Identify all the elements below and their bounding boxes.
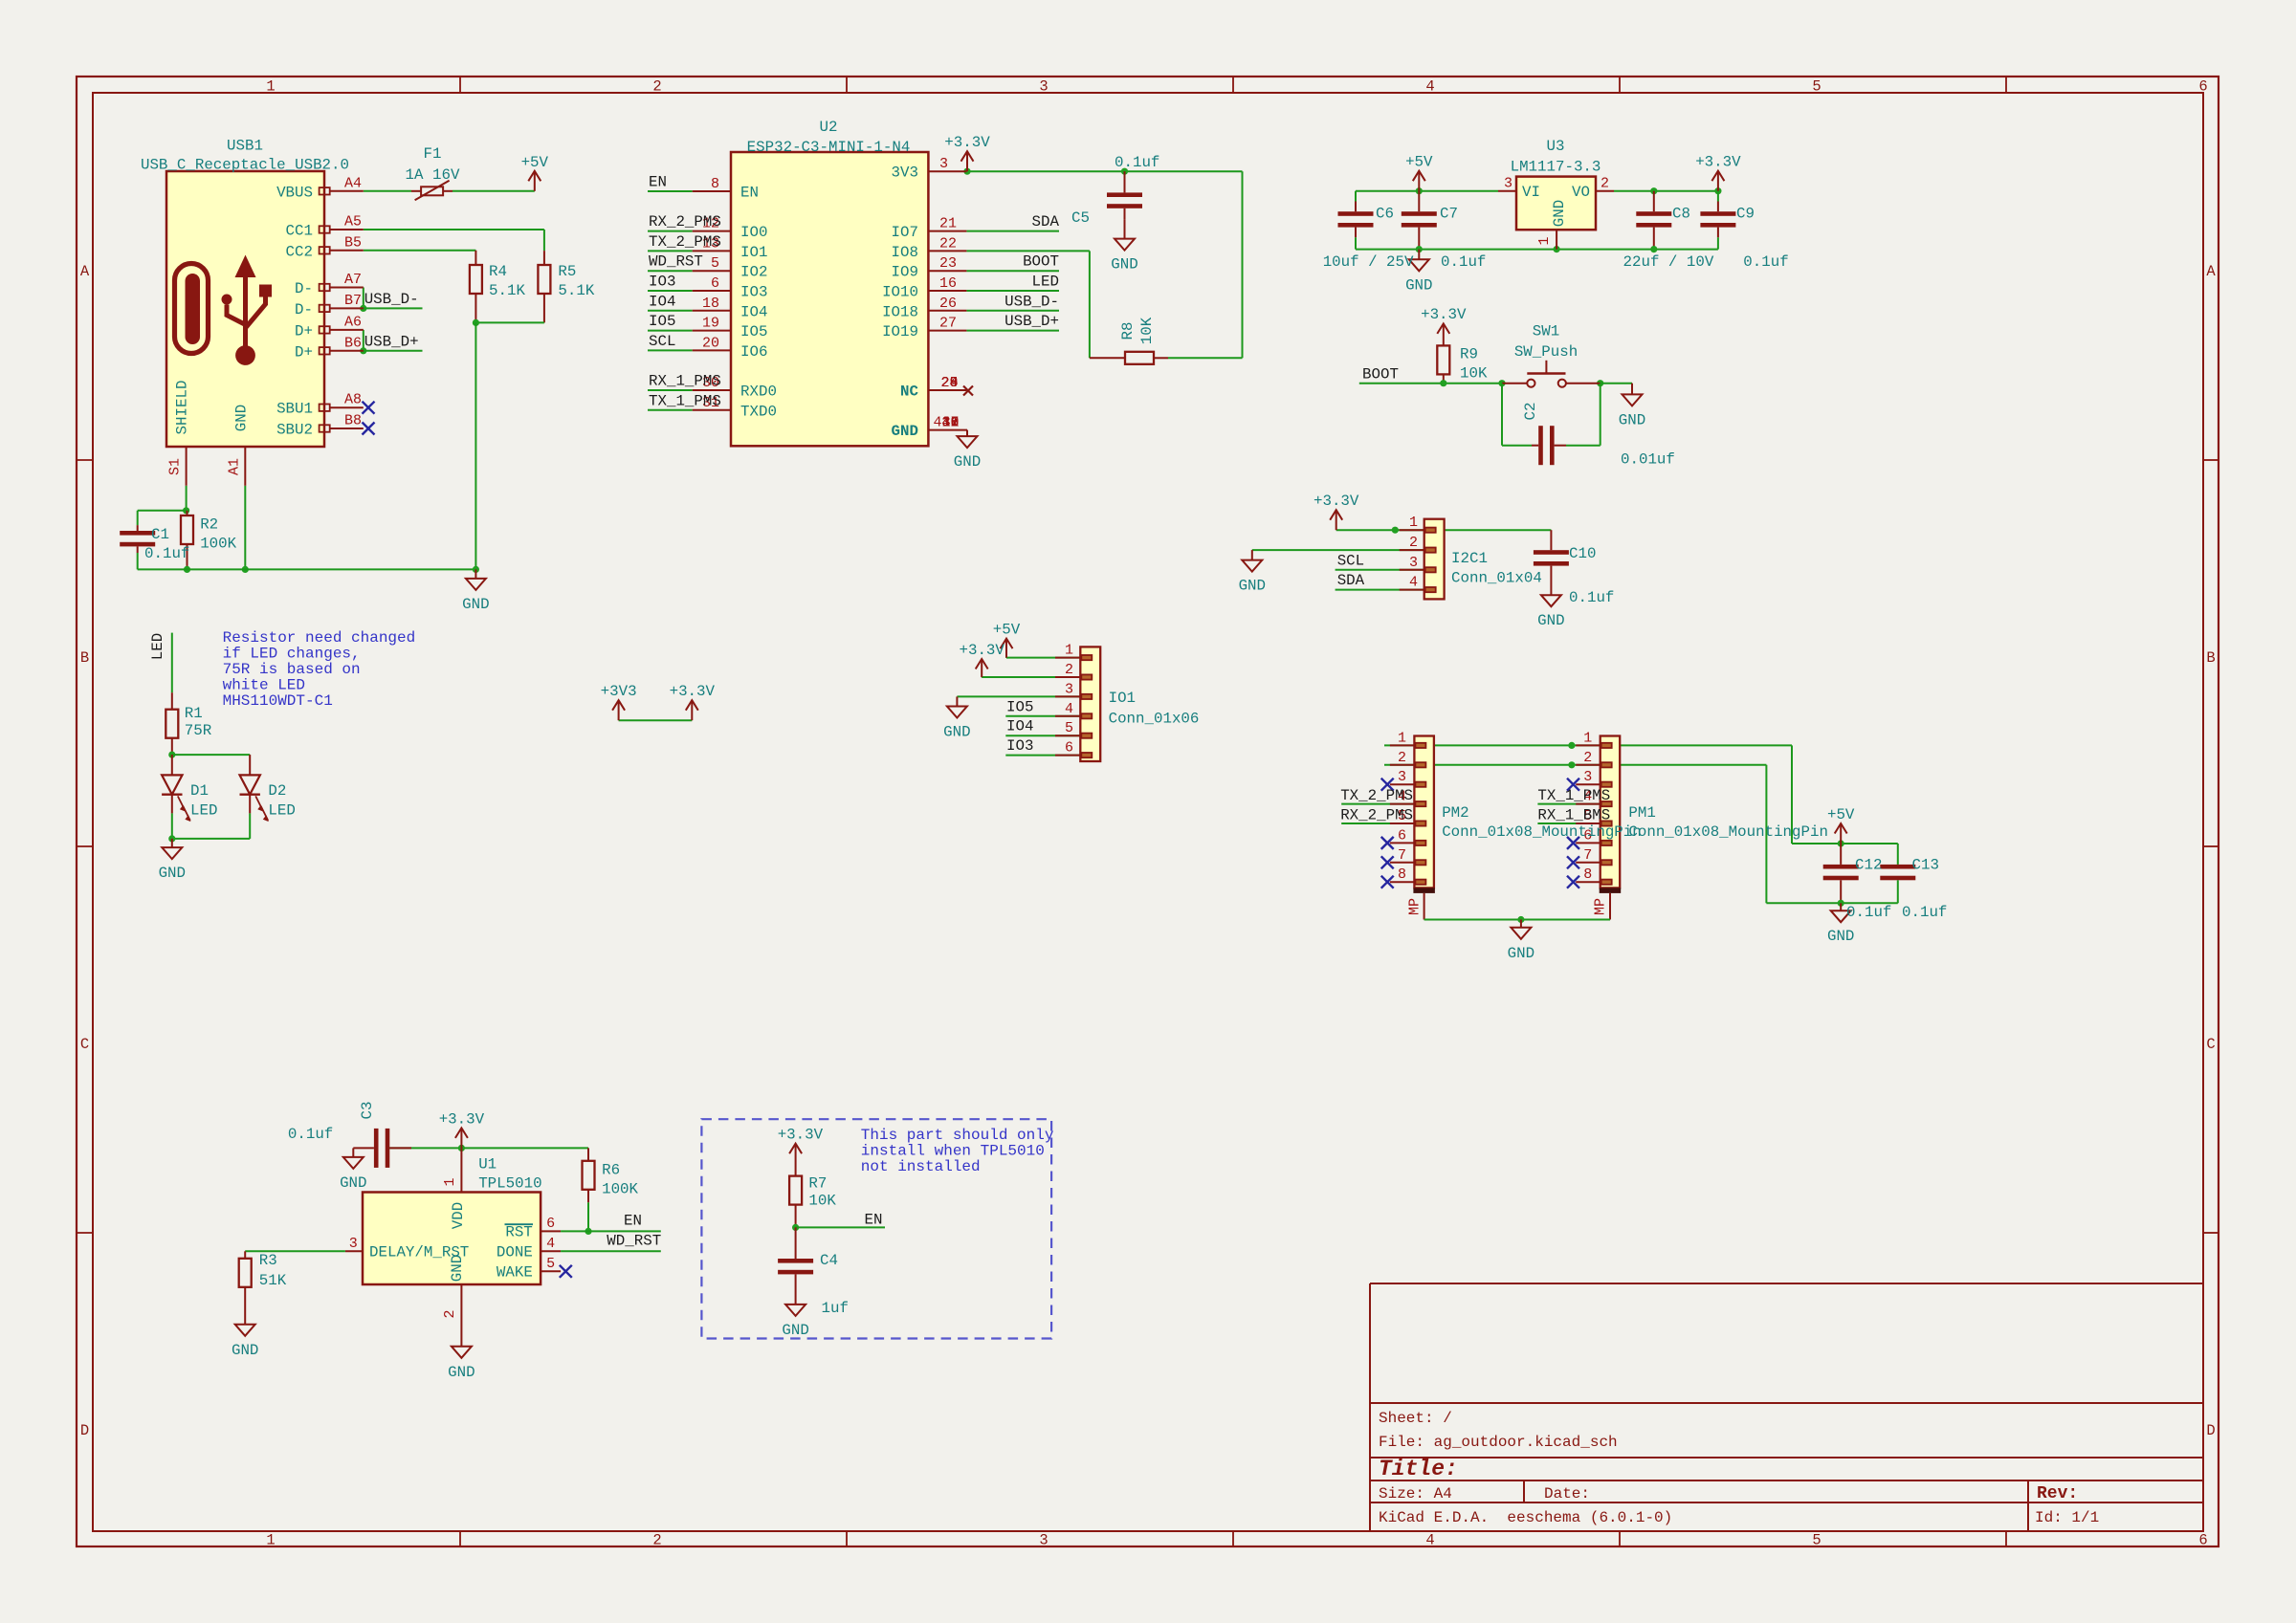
svg-text:IO5: IO5 xyxy=(740,323,767,340)
svg-text:Conn_01x08_MountingPin: Conn_01x08_MountingPin xyxy=(1628,823,1828,841)
svg-text:white LED: white LED xyxy=(223,677,305,694)
svg-text:3: 3 xyxy=(939,156,948,172)
svg-text:VO: VO xyxy=(1572,184,1590,201)
svg-text:BOOT: BOOT xyxy=(1023,253,1059,271)
svg-text:B5: B5 xyxy=(344,234,362,251)
svg-text:IO19: IO19 xyxy=(882,323,918,340)
svg-text:3: 3 xyxy=(1504,175,1512,191)
svg-text:+3.3V: +3.3V xyxy=(439,1110,485,1128)
svg-text:F1: F1 xyxy=(424,145,442,163)
svg-text:22: 22 xyxy=(939,235,957,252)
svg-text:IO2: IO2 xyxy=(740,264,767,281)
svg-text:A: A xyxy=(2206,263,2216,280)
svg-text:Rev:: Rev: xyxy=(2037,1484,2078,1503)
svg-text:C10: C10 xyxy=(1569,545,1596,562)
svg-text:IO4: IO4 xyxy=(740,303,767,320)
svg-text:GND: GND xyxy=(462,596,489,613)
svg-text:GND: GND xyxy=(782,1322,808,1339)
svg-text:2: 2 xyxy=(1398,750,1406,766)
svg-text:1: 1 xyxy=(266,78,275,96)
svg-text:R3: R3 xyxy=(259,1252,277,1269)
svg-text:RST: RST xyxy=(505,1223,532,1240)
svg-text:RX_1_BMS: RX_1_BMS xyxy=(1537,807,1610,824)
svg-text:B: B xyxy=(2206,649,2215,667)
svg-text:D+: D+ xyxy=(295,343,313,361)
svg-text:+3V3: +3V3 xyxy=(601,683,637,700)
svg-text:3: 3 xyxy=(1398,769,1406,785)
svg-text:+3.3V: +3.3V xyxy=(1314,493,1359,510)
svg-text:GND: GND xyxy=(232,405,250,431)
svg-text:DELAY/M_RST: DELAY/M_RST xyxy=(369,1243,469,1261)
svg-text:4: 4 xyxy=(1425,78,1434,96)
svg-text:Resistor need changed: Resistor need changed xyxy=(223,629,416,647)
svg-text:5: 5 xyxy=(1812,1532,1821,1549)
svg-text:2: 2 xyxy=(442,1309,458,1318)
svg-text:D+: D+ xyxy=(295,322,313,340)
svg-text:if LED changes,: if LED changes, xyxy=(223,645,361,662)
svg-text:IO7: IO7 xyxy=(892,224,918,241)
svg-text:LED: LED xyxy=(190,802,217,820)
svg-text:C8: C8 xyxy=(1672,206,1690,223)
svg-text:6: 6 xyxy=(1398,827,1406,844)
svg-text:IO3: IO3 xyxy=(649,274,675,291)
svg-text:Size: A4: Size: A4 xyxy=(1379,1485,1452,1502)
svg-text:install when TPL5010: install when TPL5010 xyxy=(861,1143,1045,1160)
svg-text:10K: 10K xyxy=(1460,365,1488,383)
svg-text:3V3: 3V3 xyxy=(892,164,918,182)
svg-text:File: ag_outdoor.kicad_sch: File: ag_outdoor.kicad_sch xyxy=(1379,1434,1618,1451)
svg-text:IO5: IO5 xyxy=(1006,698,1033,715)
svg-text:5: 5 xyxy=(546,1256,555,1272)
svg-text:Conn_01x04: Conn_01x04 xyxy=(1451,570,1542,587)
svg-text:IO3: IO3 xyxy=(740,284,767,301)
svg-text:IO0: IO0 xyxy=(740,224,767,241)
svg-text:5: 5 xyxy=(711,255,719,272)
svg-text:R4: R4 xyxy=(489,263,507,280)
svg-text:5.1K: 5.1K xyxy=(489,282,525,299)
svg-text:U3: U3 xyxy=(1547,138,1565,155)
svg-text:GND: GND xyxy=(1537,612,1564,629)
svg-text:U1: U1 xyxy=(478,1156,497,1173)
svg-text:GND: GND xyxy=(1111,256,1137,274)
svg-text:MP: MP xyxy=(1406,898,1423,915)
svg-text:Title:: Title: xyxy=(1379,1457,1458,1481)
svg-text:C6: C6 xyxy=(1376,206,1394,223)
svg-text:2: 2 xyxy=(1065,662,1073,678)
svg-text:+5V: +5V xyxy=(521,154,549,171)
svg-text:Conn_01x08_MountingPin: Conn_01x08_MountingPin xyxy=(1442,823,1642,841)
svg-text:not installed: not installed xyxy=(861,1158,981,1175)
svg-text:SDA: SDA xyxy=(1032,213,1060,230)
svg-text:4: 4 xyxy=(934,415,942,431)
svg-text:75R: 75R xyxy=(185,722,212,739)
svg-text:IO1: IO1 xyxy=(740,244,767,261)
svg-text:+5V: +5V xyxy=(993,622,1021,639)
svg-text:3: 3 xyxy=(349,1236,358,1252)
svg-text:3: 3 xyxy=(1039,1532,1048,1549)
svg-text:EN: EN xyxy=(649,174,667,191)
svg-text:TX_1_PMS: TX_1_PMS xyxy=(649,392,721,409)
svg-text:0.1uf: 0.1uf xyxy=(1115,154,1159,171)
svg-text:+3.3V: +3.3V xyxy=(670,683,716,700)
svg-text:Id: 1/1: Id: 1/1 xyxy=(2035,1509,2099,1526)
svg-text:C9: C9 xyxy=(1736,206,1755,223)
svg-text:EN: EN xyxy=(865,1212,883,1229)
svg-text:C12: C12 xyxy=(1855,857,1882,874)
svg-text:2: 2 xyxy=(652,1532,661,1549)
svg-text:6: 6 xyxy=(546,1216,555,1232)
svg-text:4: 4 xyxy=(1065,701,1073,717)
svg-text:4: 4 xyxy=(546,1236,555,1252)
svg-text:21: 21 xyxy=(939,216,957,232)
svg-text:VI: VI xyxy=(1522,184,1540,201)
svg-text:RX_2_PMS: RX_2_PMS xyxy=(649,213,721,230)
svg-text:C1: C1 xyxy=(151,526,169,543)
svg-text:MP: MP xyxy=(1593,898,1609,915)
svg-text:2: 2 xyxy=(1583,750,1592,766)
svg-text:3: 3 xyxy=(1039,78,1048,96)
svg-text:LM1117-3.3: LM1117-3.3 xyxy=(1511,159,1601,176)
svg-text:0.1uf: 0.1uf xyxy=(1902,904,1947,921)
svg-text:SBU2: SBU2 xyxy=(276,422,313,439)
svg-text:1: 1 xyxy=(1409,515,1418,531)
svg-text:U2: U2 xyxy=(820,119,838,136)
svg-text:C5: C5 xyxy=(1071,209,1090,227)
svg-text:D-: D- xyxy=(295,280,313,297)
svg-text:8: 8 xyxy=(1398,866,1406,883)
svg-text:IO6: IO6 xyxy=(740,343,767,361)
svg-text:WD_RST: WD_RST xyxy=(607,1232,661,1249)
svg-text:GND: GND xyxy=(340,1174,366,1192)
svg-text:5.1K: 5.1K xyxy=(558,282,594,299)
svg-text:Conn_01x06: Conn_01x06 xyxy=(1109,711,1200,728)
svg-text:1uf: 1uf xyxy=(822,1300,849,1317)
svg-text:8: 8 xyxy=(711,176,719,192)
svg-text:RX_2_PMS: RX_2_PMS xyxy=(1340,807,1413,824)
svg-text:+3.3V: +3.3V xyxy=(1421,306,1467,323)
svg-text:10K: 10K xyxy=(1138,317,1156,344)
svg-text:USB_D-: USB_D- xyxy=(364,291,419,308)
svg-text:A6: A6 xyxy=(344,314,362,330)
svg-text:IO1: IO1 xyxy=(1109,690,1136,707)
svg-text:I2C1: I2C1 xyxy=(1451,550,1488,567)
svg-text:KiCad E.D.A. eeschema (6.0.1-: KiCad E.D.A. eeschema (6.0.1-0) xyxy=(1379,1509,1672,1526)
svg-text:D: D xyxy=(80,1422,89,1439)
svg-text:1A 16V: 1A 16V xyxy=(406,166,460,184)
svg-text:B7: B7 xyxy=(344,293,362,309)
svg-text:VDD: VDD xyxy=(450,1202,467,1229)
svg-text:1: 1 xyxy=(1398,730,1406,746)
svg-text:USB_D+: USB_D+ xyxy=(364,333,419,350)
svg-text:A4: A4 xyxy=(344,175,362,191)
svg-text:0.1uf: 0.1uf xyxy=(1569,589,1614,606)
svg-text:USB_C_Receptacle_USB2.0: USB_C_Receptacle_USB2.0 xyxy=(141,157,349,174)
svg-text:CC1: CC1 xyxy=(286,223,313,240)
svg-text:0.1uf: 0.1uf xyxy=(1846,904,1891,921)
svg-text:6: 6 xyxy=(711,275,719,292)
svg-text:7: 7 xyxy=(1398,847,1406,864)
svg-text:IO3: IO3 xyxy=(1006,737,1033,755)
svg-text:A1: A1 xyxy=(227,458,243,475)
svg-text:ESP32-C3-MINI-1-N4: ESP32-C3-MINI-1-N4 xyxy=(747,139,911,156)
svg-text:2: 2 xyxy=(1601,175,1609,191)
svg-text:A8: A8 xyxy=(344,392,362,408)
svg-text:+3.3V: +3.3V xyxy=(1695,154,1741,171)
svg-text:0.01uf: 0.01uf xyxy=(1621,451,1675,469)
svg-text:USB1: USB1 xyxy=(227,138,263,155)
svg-text:0.1uf: 0.1uf xyxy=(144,545,189,562)
svg-text:IO10: IO10 xyxy=(882,284,918,301)
svg-text:B: B xyxy=(80,649,89,667)
svg-text:4: 4 xyxy=(1409,575,1418,591)
svg-text:GND: GND xyxy=(1508,945,1534,962)
svg-text:22uf / 10V: 22uf / 10V xyxy=(1623,253,1714,271)
svg-text:IO5: IO5 xyxy=(649,313,675,330)
svg-text:1: 1 xyxy=(1536,236,1553,245)
svg-text:16: 16 xyxy=(939,275,957,292)
svg-text:51K: 51K xyxy=(259,1272,287,1289)
svg-text:23: 23 xyxy=(939,255,957,272)
svg-text:3: 3 xyxy=(1065,681,1073,697)
svg-text:WD_RST: WD_RST xyxy=(649,253,703,271)
svg-text:GND: GND xyxy=(232,1342,258,1359)
svg-text:GND: GND xyxy=(1239,578,1266,595)
svg-text:EN: EN xyxy=(740,185,759,202)
svg-text:42: 42 xyxy=(942,415,960,431)
svg-text:R6: R6 xyxy=(602,1162,620,1179)
svg-text:GND: GND xyxy=(1619,411,1645,428)
svg-text:GND: GND xyxy=(448,1364,475,1381)
svg-text:CC2: CC2 xyxy=(286,243,313,260)
svg-text:A5: A5 xyxy=(344,214,362,230)
svg-text:SDA: SDA xyxy=(1337,572,1365,589)
svg-text:75R is based on: 75R is based on xyxy=(223,661,361,678)
svg-text:GND: GND xyxy=(1551,200,1568,227)
svg-text:S1: S1 xyxy=(167,458,184,475)
svg-text:1: 1 xyxy=(266,1532,275,1549)
svg-text:100K: 100K xyxy=(200,536,236,553)
svg-text:TX_1_PMS: TX_1_PMS xyxy=(1537,787,1610,804)
svg-text:0.1uf: 0.1uf xyxy=(1441,253,1486,271)
svg-text:C3: C3 xyxy=(359,1102,376,1120)
svg-text:TX_2_PMS: TX_2_PMS xyxy=(1340,787,1413,804)
svg-text:R2: R2 xyxy=(200,516,218,534)
svg-text:TXD0: TXD0 xyxy=(740,403,777,420)
svg-text:PM2: PM2 xyxy=(1442,804,1468,822)
svg-text:1: 1 xyxy=(1583,730,1592,746)
svg-text:+5V: +5V xyxy=(1405,154,1433,171)
svg-text:R9: R9 xyxy=(1460,346,1478,363)
svg-text:TPL5010: TPL5010 xyxy=(478,1175,541,1193)
svg-text:5: 5 xyxy=(1812,78,1821,96)
svg-text:RXD0: RXD0 xyxy=(740,384,777,401)
svg-text:29: 29 xyxy=(941,375,959,391)
svg-text:B8: B8 xyxy=(344,413,362,429)
svg-text:C: C xyxy=(80,1036,89,1053)
svg-text:1: 1 xyxy=(1065,643,1073,659)
svg-text:C2: C2 xyxy=(1522,403,1539,421)
svg-text:LED: LED xyxy=(1032,274,1059,291)
svg-text:+3.3V: +3.3V xyxy=(778,1127,824,1144)
svg-text:C7: C7 xyxy=(1440,206,1458,223)
svg-text:PM1: PM1 xyxy=(1628,804,1655,822)
svg-text:6: 6 xyxy=(1065,740,1073,757)
svg-text:R7: R7 xyxy=(808,1175,827,1193)
svg-text:1: 1 xyxy=(442,1177,458,1186)
svg-text:D1: D1 xyxy=(190,782,209,800)
svg-text:IO4: IO4 xyxy=(649,293,675,310)
svg-text:20: 20 xyxy=(702,335,719,351)
svg-text:BOOT: BOOT xyxy=(1362,366,1399,384)
svg-text:LED: LED xyxy=(268,802,295,820)
svg-text:0.1uf: 0.1uf xyxy=(288,1126,333,1143)
svg-text:+3.3V: +3.3V xyxy=(944,134,990,151)
svg-text:GND: GND xyxy=(954,453,981,471)
svg-text:GND: GND xyxy=(1405,276,1432,294)
svg-text:IO18: IO18 xyxy=(882,303,918,320)
svg-text:SHIELD: SHIELD xyxy=(174,381,191,435)
svg-text:D2: D2 xyxy=(268,782,286,800)
svg-text:5: 5 xyxy=(1065,720,1073,736)
svg-text:Sheet: /: Sheet: / xyxy=(1379,1410,1452,1427)
svg-text:B6: B6 xyxy=(344,335,362,351)
svg-text:D-: D- xyxy=(295,301,313,318)
svg-text:2: 2 xyxy=(652,78,661,96)
svg-text:100K: 100K xyxy=(602,1181,638,1198)
svg-text:2: 2 xyxy=(1409,535,1418,551)
svg-text:EN: EN xyxy=(624,1212,642,1229)
svg-text:GND: GND xyxy=(892,423,918,440)
svg-text:RX_1_PMS: RX_1_PMS xyxy=(649,373,721,390)
svg-text:GND: GND xyxy=(1827,928,1854,945)
svg-text:TX_2_PMS: TX_2_PMS xyxy=(649,233,721,251)
svg-text:+5V: +5V xyxy=(1827,806,1855,823)
svg-text:VBUS: VBUS xyxy=(276,184,313,201)
svg-text:A7: A7 xyxy=(344,272,362,288)
svg-text:This part should only: This part should only xyxy=(861,1127,1054,1144)
svg-text:SBU1: SBU1 xyxy=(276,401,313,418)
svg-text:A: A xyxy=(80,263,90,280)
svg-text:10K: 10K xyxy=(808,1193,836,1210)
svg-text:WAKE: WAKE xyxy=(497,1263,533,1281)
svg-text:SW1: SW1 xyxy=(1533,323,1559,340)
svg-text:IO9: IO9 xyxy=(892,264,918,281)
svg-text:19: 19 xyxy=(702,316,719,332)
svg-text:3: 3 xyxy=(1583,769,1592,785)
svg-text:SCL: SCL xyxy=(1337,552,1364,569)
svg-text:C4: C4 xyxy=(820,1252,838,1269)
svg-text:Date:: Date: xyxy=(1544,1485,1590,1502)
svg-text:MHS110WDT-C1: MHS110WDT-C1 xyxy=(223,692,333,710)
svg-text:GND: GND xyxy=(943,724,970,741)
svg-text:C: C xyxy=(2206,1036,2215,1053)
svg-text:8: 8 xyxy=(1583,866,1592,883)
svg-text:SCL: SCL xyxy=(649,333,675,350)
svg-text:C13: C13 xyxy=(1912,857,1939,874)
svg-text:3: 3 xyxy=(1409,555,1418,571)
svg-text:USB_D+: USB_D+ xyxy=(1004,313,1059,330)
svg-text:IO8: IO8 xyxy=(892,244,918,261)
svg-text:6: 6 xyxy=(2198,1532,2207,1549)
svg-text:NC: NC xyxy=(900,384,918,401)
svg-text:27: 27 xyxy=(939,316,957,332)
svg-text:SW_Push: SW_Push xyxy=(1514,343,1578,361)
svg-text:R5: R5 xyxy=(558,263,576,280)
svg-text:26: 26 xyxy=(939,296,957,312)
svg-text:4: 4 xyxy=(1425,1532,1434,1549)
svg-text:GND: GND xyxy=(159,865,186,882)
svg-text:18: 18 xyxy=(702,296,719,312)
svg-text:10uf / 25V: 10uf / 25V xyxy=(1323,253,1414,271)
svg-text:D: D xyxy=(2206,1422,2215,1439)
svg-text:R1: R1 xyxy=(185,705,203,722)
svg-text:6: 6 xyxy=(2198,78,2207,96)
svg-text:R8: R8 xyxy=(1119,322,1137,340)
svg-text:+3.3V: +3.3V xyxy=(959,642,1004,659)
svg-text:USB_D-: USB_D- xyxy=(1004,293,1059,310)
svg-text:LED: LED xyxy=(149,633,166,660)
svg-text:0.1uf: 0.1uf xyxy=(1743,253,1788,271)
svg-text:IO4: IO4 xyxy=(1006,718,1033,735)
svg-text:DONE: DONE xyxy=(497,1243,533,1261)
svg-text:7: 7 xyxy=(1583,847,1592,864)
